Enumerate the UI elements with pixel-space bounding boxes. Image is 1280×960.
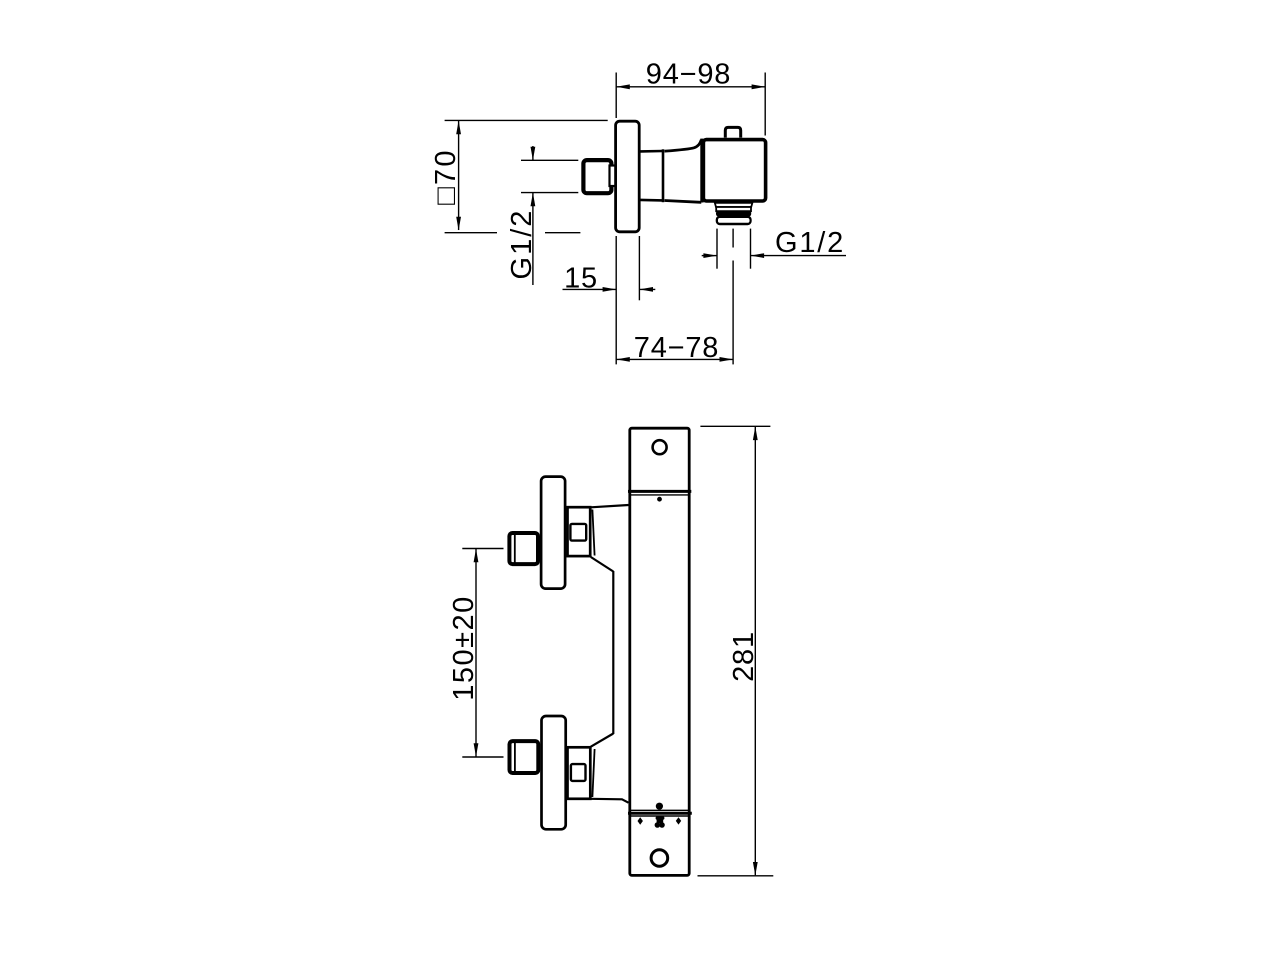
dimension square 70 xyxy=(430,120,608,232)
bottom knob end-cap line xyxy=(514,742,516,773)
small dot above bottom joint xyxy=(656,803,663,810)
bottom knob (front view) xyxy=(510,741,539,773)
dimension 281 xyxy=(698,426,774,876)
outlet connector nut xyxy=(717,217,751,224)
knob stem xyxy=(610,166,617,187)
svg-text:15: 15 xyxy=(564,262,598,294)
top escutcheon disc xyxy=(541,477,565,589)
bottom union collar xyxy=(568,747,591,799)
outlet connector band 1 xyxy=(715,203,753,207)
svg-text:150±20: 150±20 xyxy=(448,595,480,701)
main rail body outline xyxy=(630,428,689,875)
top knob end-cap line xyxy=(514,534,516,564)
bottom G1/2 nipple square xyxy=(571,764,586,781)
small dot above top joint xyxy=(657,497,662,502)
left diamond mark xyxy=(638,817,643,824)
bottom cap joint lines xyxy=(630,809,689,811)
svg-text:G1/2: G1/2 xyxy=(506,209,538,280)
svg-text:74−78: 74−78 xyxy=(634,332,719,364)
dimension 74-78 xyxy=(616,229,733,365)
dimension 15 (flange thickness) xyxy=(563,236,656,364)
bottom escutcheon disc xyxy=(542,716,566,829)
top cap joint lines xyxy=(628,490,691,493)
dimension 150 +/- 20 xyxy=(448,549,504,758)
neck between flange and cone xyxy=(641,149,664,202)
temperature knob (side view) xyxy=(583,160,611,193)
svg-text:281: 281 xyxy=(728,631,760,682)
screw cluster below bottom joint xyxy=(655,816,665,827)
svg-text:G1/2: G1/2 xyxy=(775,227,845,259)
top mounting hole xyxy=(653,440,667,454)
dimension G1/2 (outlet) xyxy=(702,227,846,269)
bottom mounting hole xyxy=(651,850,668,867)
mixer silhouette bracket (between unions) xyxy=(591,505,629,803)
top knob (front view) xyxy=(509,533,538,564)
top button xyxy=(725,127,740,137)
outlet connector band 2 xyxy=(716,207,751,211)
body block left edge xyxy=(700,139,703,203)
svg-text:94−98: 94−98 xyxy=(646,59,731,91)
right diamond mark xyxy=(676,817,681,824)
wall flange xyxy=(616,121,640,232)
top union collar xyxy=(568,507,591,556)
cone section of body xyxy=(665,140,702,203)
mixer body block xyxy=(703,140,765,201)
outlet connector groove ring (black) xyxy=(716,211,751,217)
dimension G1/2 (knob) xyxy=(506,146,578,285)
dimension 94-98 xyxy=(616,59,765,136)
top G1/2 nipple square xyxy=(570,524,586,541)
svg-text:□70: □70 xyxy=(430,148,462,204)
